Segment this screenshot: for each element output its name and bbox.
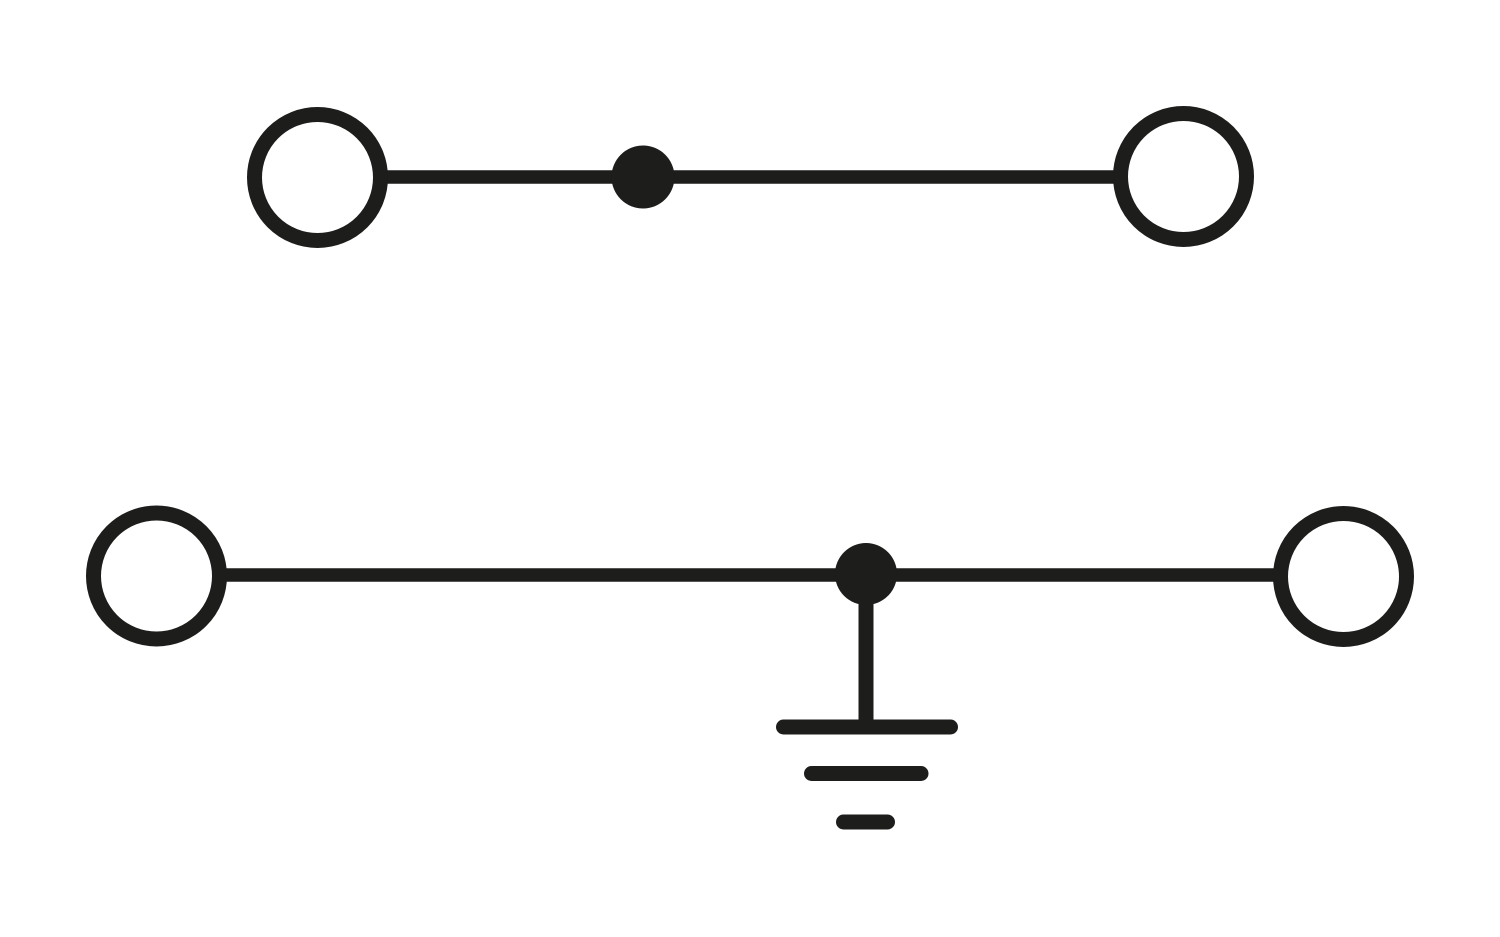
- wire (lower level conductor): [222, 568, 1278, 582]
- terminal circle (upper right connection point): [1121, 114, 1247, 240]
- ground (bottom bar): [844, 815, 888, 830]
- node (upper level junction dot): [612, 146, 675, 209]
- wire (vertical drop from junction to ground): [859, 574, 874, 727]
- terminal circle (lower left connection point): [94, 513, 220, 639]
- ground (top bar): [784, 720, 951, 735]
- ground (middle bar): [812, 766, 922, 781]
- terminal circle (upper left connection point): [255, 115, 381, 241]
- wire (upper level conductor): [383, 170, 1117, 184]
- terminal circle (lower right connection point): [1281, 514, 1407, 640]
- node (lower level junction dot): [835, 543, 897, 605]
